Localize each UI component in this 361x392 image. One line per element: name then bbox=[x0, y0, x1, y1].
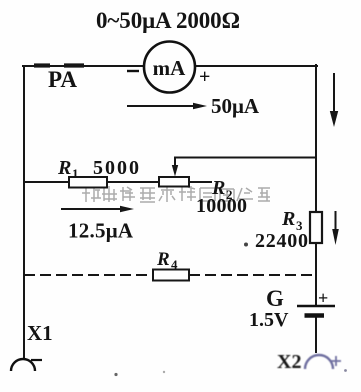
battery long plate bbox=[297, 305, 335, 307]
svg-text:R: R bbox=[156, 249, 170, 270]
scan speck bbox=[344, 369, 347, 372]
main circuit ink bbox=[23, 65, 317, 358]
svg-text:X2: X2 bbox=[277, 351, 301, 373]
X1 minus mark bbox=[31, 359, 42, 361]
wire: top rail right of meter bbox=[196, 65, 317, 67]
svg-text:PA: PA bbox=[48, 67, 77, 92]
svg-text:1: 1 bbox=[72, 166, 79, 181]
wire: right vertical rail bbox=[315, 65, 317, 306]
dashed wire right of R4 bbox=[189, 274, 316, 276]
top right current arrow bbox=[330, 73, 338, 127]
12.5uA current arrow bbox=[61, 206, 134, 212]
resistor R4 bbox=[153, 270, 189, 281]
potentiometer R2 bbox=[159, 177, 189, 187]
svg-text:50μA: 50μA bbox=[211, 94, 260, 118]
svg-text:X1: X1 bbox=[27, 321, 53, 345]
watermark bbox=[82, 186, 270, 202]
R3 current arrow bbox=[332, 211, 339, 245]
svg-text:mA: mA bbox=[153, 56, 186, 80]
wire: wiper wire to right rail bbox=[175, 157, 316, 159]
svg-text:R: R bbox=[57, 157, 71, 179]
svg-text:1.5V: 1.5V bbox=[249, 309, 289, 331]
svg-text:22400: 22400 bbox=[255, 230, 308, 252]
wire: top rail left of meter bbox=[23, 65, 143, 67]
terminal X2 (faded purple) bbox=[277, 351, 341, 373]
R2 wiper arrow bbox=[172, 157, 178, 177]
ammeter PA circle bbox=[144, 42, 195, 93]
svg-text:0~50μA 2000Ω: 0~50μA 2000Ω bbox=[96, 8, 240, 33]
meter minus terminal bbox=[127, 70, 139, 72]
X2 arc bbox=[305, 355, 333, 369]
wire: R1 left lead bbox=[24, 181, 69, 183]
dashed wire left of R4 bbox=[24, 274, 153, 276]
wire: R2 right stub bbox=[190, 181, 211, 183]
svg-text:4: 4 bbox=[171, 257, 178, 272]
X2 plus mark bbox=[331, 356, 341, 366]
svg-text:R: R bbox=[281, 208, 295, 230]
battery short plate bbox=[305, 313, 325, 318]
svg-text:5000: 5000 bbox=[93, 157, 139, 179]
svg-text:+: + bbox=[199, 66, 210, 88]
wire: left vertical rail bbox=[23, 66, 25, 358]
scan speck bbox=[244, 243, 248, 247]
scan speck bbox=[114, 373, 117, 376]
svg-text:10000: 10000 bbox=[196, 195, 247, 217]
wire: R1-R2 link bbox=[107, 181, 159, 183]
smudges on top wire bbox=[34, 63, 84, 67]
scan speck bbox=[163, 371, 165, 373]
svg-text:12.5μA: 12.5μA bbox=[68, 219, 134, 243]
terminal X1 arc bbox=[11, 359, 35, 371]
resistor R1 bbox=[69, 177, 107, 188]
resistor R3 bbox=[310, 212, 322, 243]
svg-text:G: G bbox=[266, 286, 284, 311]
50uA current arrow bbox=[127, 103, 207, 109]
wire: battery bottom lead bbox=[315, 316, 317, 352]
